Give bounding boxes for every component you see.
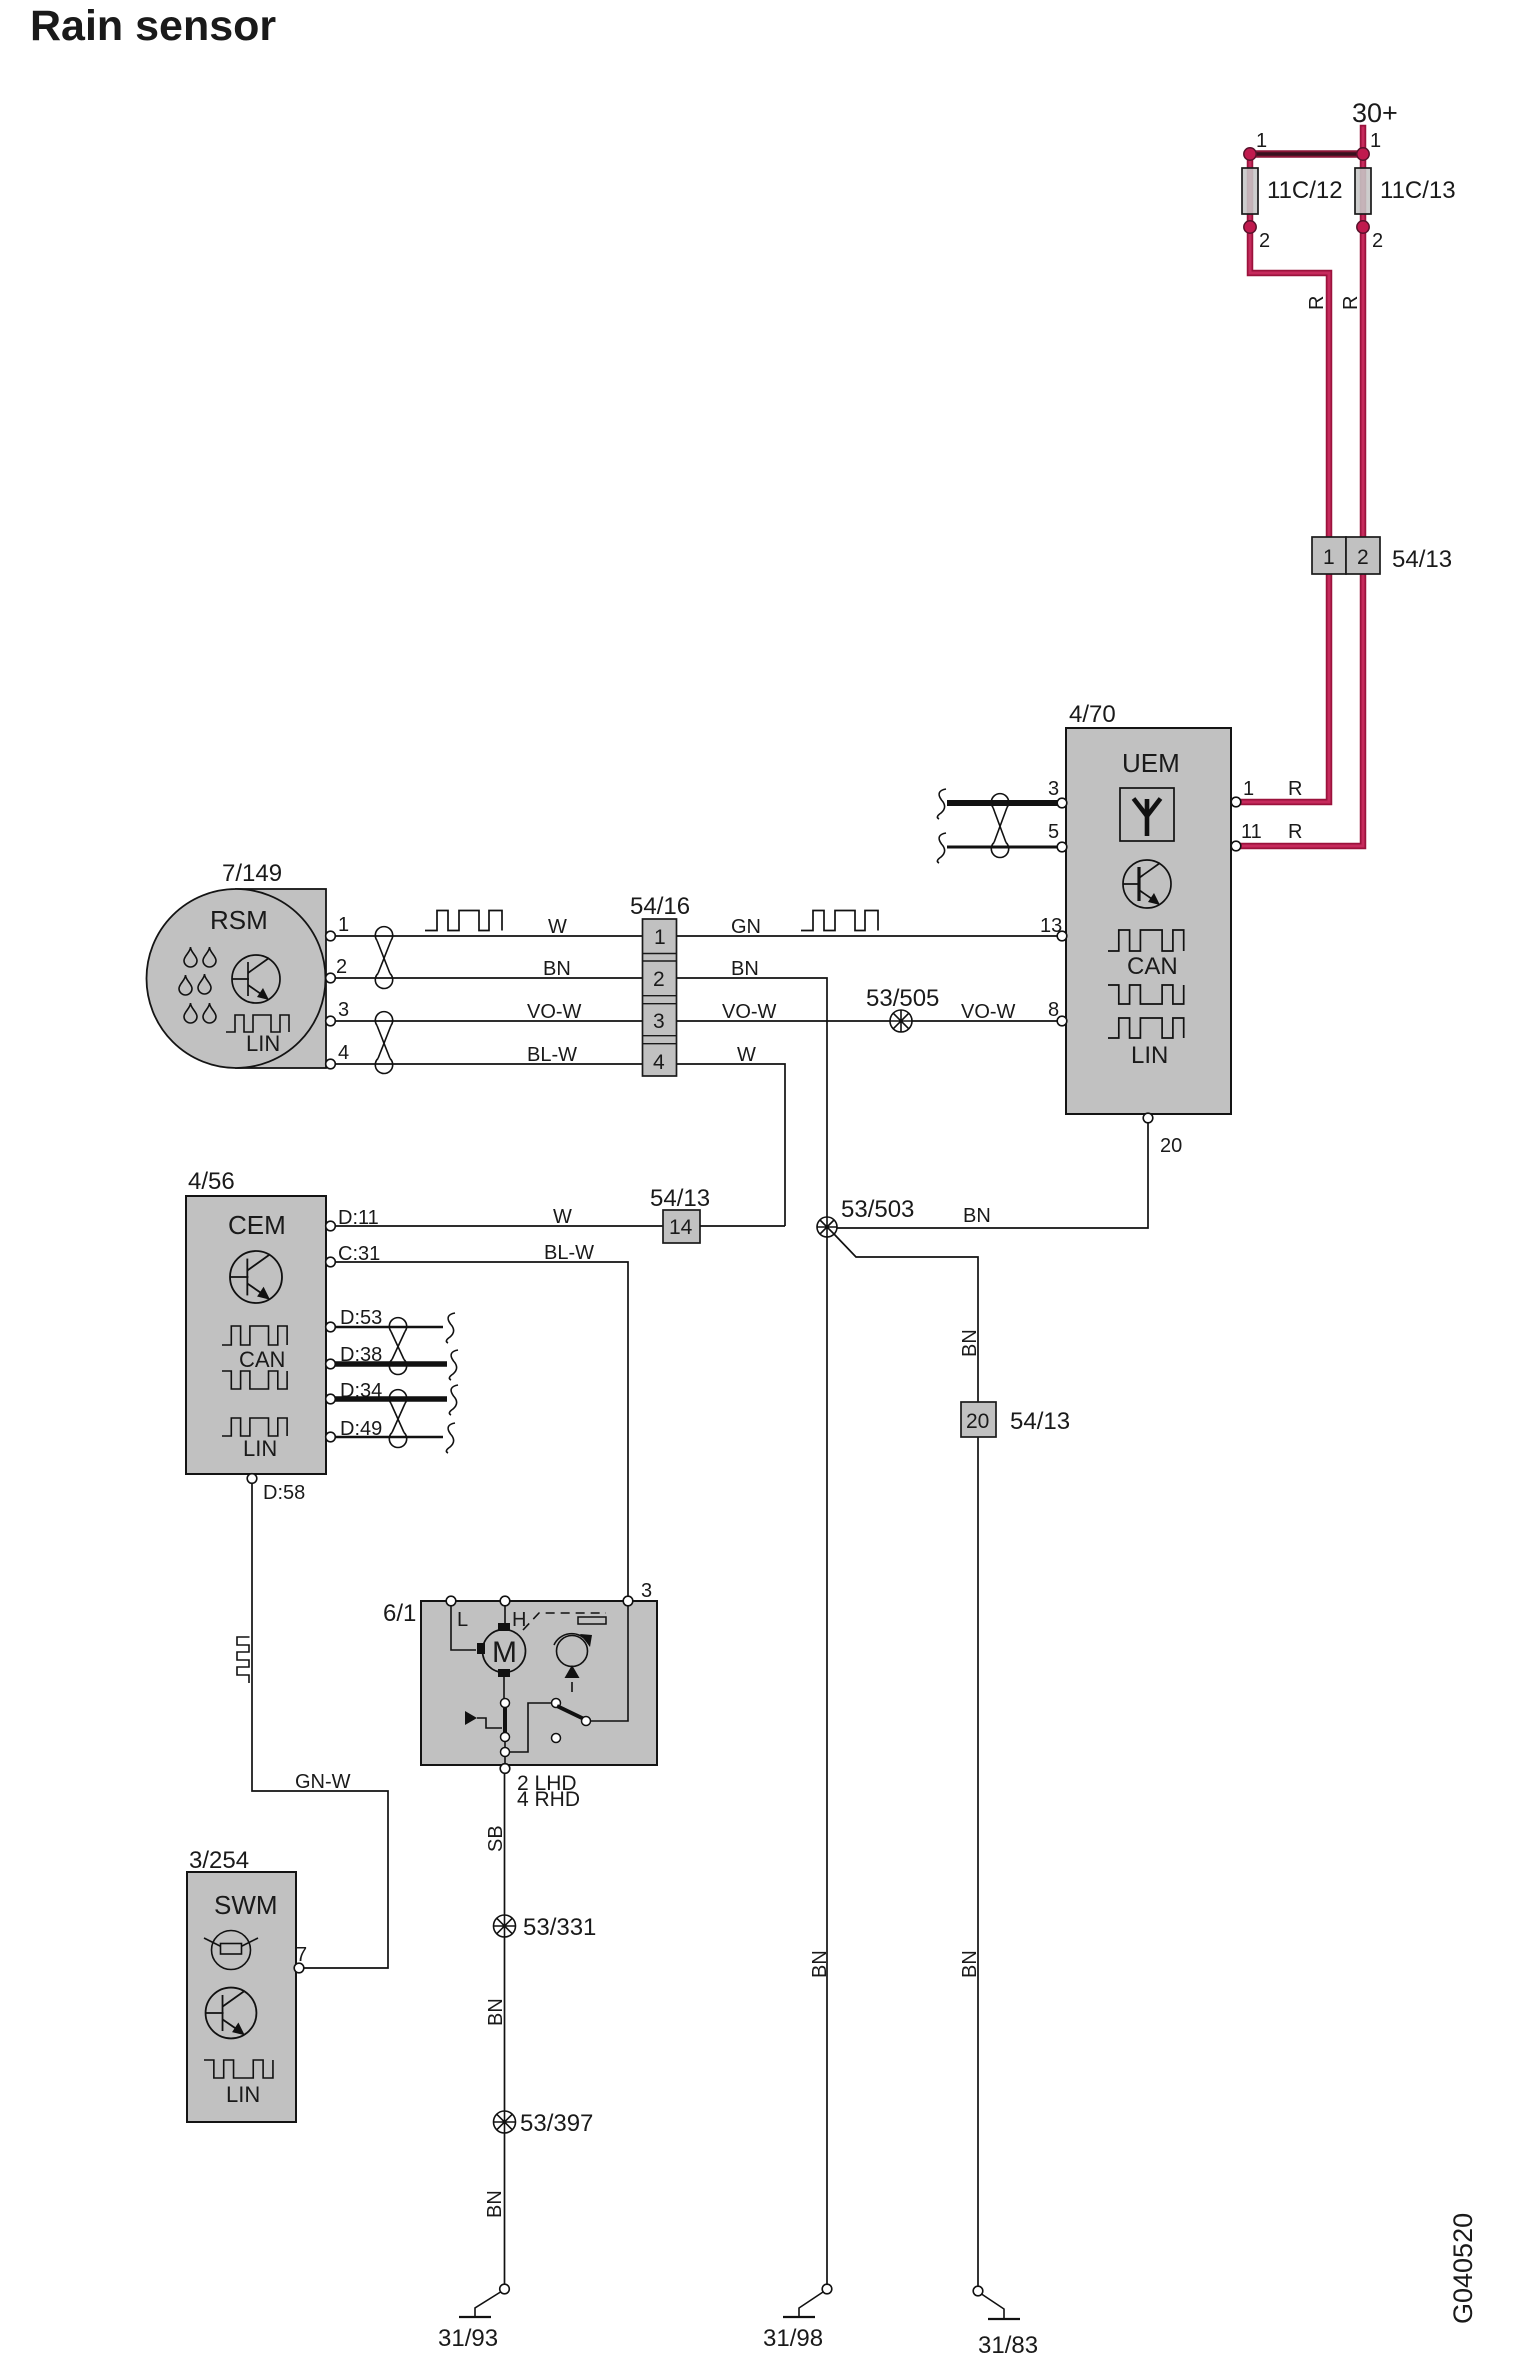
svg-text:5: 5 [1048,821,1059,843]
svg-text:3: 3 [641,1580,652,1602]
svg-text:30+: 30+ [1352,98,1398,128]
svg-text:54/13: 54/13 [1392,546,1452,573]
svg-text:11C/13: 11C/13 [1380,177,1456,204]
CEM pin D:49 [326,1432,336,1442]
svg-text:3: 3 [1048,778,1059,800]
wire 54/13 pin2 to UEM pin11 (red) [1240,574,1363,846]
svg-text:31/83: 31/83 [978,2332,1038,2359]
svg-text:3: 3 [653,1010,665,1033]
svg-text:LIN: LIN [246,1031,280,1056]
ground 31/83 [973,2286,1038,2359]
svg-text:CEM: CEM [228,1210,286,1240]
svg-text:BN: BN [484,2190,506,2218]
svg-text:2: 2 [1372,230,1383,252]
svg-text:11C/12: 11C/12 [1267,177,1343,204]
svg-text:BN: BN [543,958,571,980]
wire 54/16 pin1 to UEM pin13 (GN) [677,935,1057,937]
wire 54/13 pin14 to 54/16 pin4 junction (W) [700,1225,785,1227]
svg-text:BN: BN [731,958,759,980]
antenna icon (UEM) [1120,788,1174,841]
svg-text:2: 2 [336,956,347,978]
svg-text:D:58: D:58 [263,1482,305,1504]
motor M1 (wiper motor) [477,1623,526,1677]
CEM pin D:53 [326,1322,336,1332]
transistor icon (RSM) [232,955,280,1003]
thermal cutout (dashed) [523,1613,606,1630]
cut mark (D:38 end) [449,1350,458,1380]
switch node (mid) [501,1733,510,1742]
RSM pin 1 [326,931,336,941]
splice 53/397 [494,2110,594,2137]
svg-text:M: M [492,1636,517,1669]
contact node (to pin 3) [582,1717,591,1726]
svg-text:W: W [548,916,567,938]
wire 30+ feed (red, vertical to node 1 right) [1360,128,1367,537]
svg-text:53/331: 53/331 [523,1914,596,1941]
wire CEM D:49 (CAN stub) [335,1436,443,1439]
svg-text:31/98: 31/98 [763,2325,823,2352]
svg-text:SB: SB [485,1825,507,1852]
CEM pin C:31 [326,1257,336,1267]
node 1 (left, fuse 11C/12 pin 1) [1244,148,1256,160]
UEM pin 11 (right, to fuse 11C/13) [1231,841,1241,851]
park switch moving contact node [552,1699,561,1708]
svg-text:GN-W: GN-W [295,1771,351,1793]
stalk switch icon (SWM) [204,1931,258,1970]
svg-text:VO-W: VO-W [722,1001,777,1023]
svg-text:L: L [457,1609,468,1631]
splice 53/503 [817,1196,914,1237]
svg-text:LIN: LIN [1131,1042,1168,1069]
LIN pulse icon + label (SWM) [204,2060,273,2078]
node 1 (right, fuse 11C/13 pin 1) [1357,148,1369,160]
connector 54/13 pin 20 [961,1402,1070,1437]
cut mark (pin 3 wire end) [937,789,946,819]
svg-text:4/70: 4/70 [1069,701,1116,728]
park position cam symbol [554,1634,592,1692]
wire L pin to motor [451,1606,476,1650]
UEM pin 3 (left, CAN-H stub) [947,800,1058,806]
svg-text:1: 1 [1243,778,1254,800]
CAN pulse icons + label (CEM) [222,1326,287,1389]
transistor icon (CEM) [230,1251,282,1303]
wire CEM D:38 (CAN stub) [335,1361,447,1367]
svg-text:R: R [1288,821,1302,843]
raindrop icons (RSM) [179,947,216,1023]
steering wheel module 3/254 SWM box [187,1847,296,2122]
CEM pin D:11 [326,1221,336,1231]
wire UEM pin20 to splice 53/503 (BN) [837,1123,1148,1228]
twisted pair symbol (UEM pins 3/5) [991,794,1008,858]
svg-text:BN: BN [485,1998,507,2026]
svg-text:7: 7 [296,1944,307,1966]
svg-text:7/149: 7/149 [222,860,282,887]
wiper motor 6/1 box [383,1600,657,1765]
svg-text:1: 1 [338,914,349,936]
svg-text:6/1: 6/1 [383,1600,416,1627]
splice 53/505 [866,985,939,1032]
wire RSM pin3 to 54/16 pin3 (VO-W) [336,1020,642,1022]
svg-text:11: 11 [1241,821,1262,843]
svg-text:54/13: 54/13 [1010,1408,1070,1435]
wire RSM pin1 to 54/16 pin1 (W) [336,935,642,937]
LIN pulse icon + label (UEM) [1108,1018,1184,1038]
svg-text:2: 2 [653,968,665,991]
wire RSM pin2 to 54/16 pin2 (BN) [336,977,642,979]
svg-text:3: 3 [338,999,349,1021]
UEM pin 8 (left) [1057,1016,1067,1026]
UEM pin 13 (left) [1057,931,1067,941]
svg-text:VO-W: VO-W [527,1001,582,1023]
switch node (motor feed) [501,1699,510,1708]
svg-text:4/56: 4/56 [188,1168,235,1195]
svg-text:53/397: 53/397 [520,2110,593,2137]
cut mark (pin 5 wire end) [937,833,946,863]
svg-text:LIN: LIN [243,1436,277,1461]
wire CEM D:11 to 54/13 pin14 (W) [335,1225,663,1227]
UEM pin 20 (bottom) [1143,1113,1153,1123]
wire RSM pin4 to 54/16 pin4 (BL-W) [336,1063,642,1065]
svg-text:54/16: 54/16 [630,893,690,920]
RSM pin 3 [326,1016,336,1026]
svg-text:UEM: UEM [1122,748,1180,778]
fuse 11C/12 [1242,168,1258,214]
svg-text:BN: BN [963,1205,991,1227]
wire 54/16 pin4 to 54/13 pin14 (W) [677,1064,785,1226]
svg-text:R: R [1288,778,1302,800]
splice 53/331 [494,1914,597,1941]
wire CEM C:31 to wiper motor pin3 (BL-W) [335,1262,628,1597]
svg-text:BL-W: BL-W [527,1044,577,1066]
svg-text:53/505: 53/505 [866,985,939,1012]
CEM pin D:58 (bottom) [247,1474,257,1484]
node 2 (right, fuse 11C/13 pin 2) [1357,221,1369,233]
switch contact bar (thick) [503,1708,507,1733]
wire motor to switch node [503,1677,505,1699]
svg-text:2: 2 [1357,546,1369,569]
central electronic module 4/56 CEM box [186,1168,326,1474]
svg-text:SWM: SWM [214,1890,278,1920]
svg-text:G040520: G040520 [1448,2213,1478,2324]
wire H pin to motor [504,1606,506,1627]
moving contact blade (thick diagonal) [557,1706,584,1719]
wire CEM D:34 (CAN stub) [335,1396,447,1402]
svg-text:4: 4 [338,1042,349,1064]
svg-text:R: R [1340,296,1362,310]
cut mark (D:53 end) [446,1313,455,1343]
cut mark (D:49 end) [446,1423,455,1453]
svg-text:14: 14 [669,1216,693,1239]
svg-text:54/13: 54/13 [650,1185,710,1212]
unused contact node [552,1734,561,1743]
CAN pulse icons + label (UEM) [1108,930,1184,1004]
svg-text:2: 2 [1259,230,1270,252]
svg-text:1: 1 [1370,130,1381,152]
wire CEM D:53 (CAN stub) [335,1326,443,1329]
RSM pin 4 [326,1059,336,1069]
svg-text:CAN: CAN [239,1347,285,1372]
pulse symbol on wire (right of 54/16) [801,911,878,931]
svg-text:13: 13 [1040,915,1062,937]
svg-text:VO-W: VO-W [961,1001,1016,1023]
wire CEM D:58 to SWM pin7 (GN-W) with LIN pulse symbol [252,1483,388,1968]
svg-text:1: 1 [654,926,666,949]
svg-text:1: 1 [1256,130,1267,152]
svg-text:20: 20 [966,1410,989,1433]
wire wiper bottom pin to ground 31/93 (SB/BN) [504,1773,506,2289]
transistor icon (SWM) [206,1988,257,2039]
connector 54/16 [630,893,690,1076]
switch node (lower) [501,1748,510,1757]
svg-text:W: W [553,1206,572,1228]
wire 54/16 pin3 to UEM pin8 (VO-W) [677,1020,1057,1022]
svg-text:BN: BN [809,1950,831,1978]
ground 31/93 [438,2284,509,2352]
node 2 (left, fuse 11C/12 pin 2) [1244,221,1256,233]
svg-text:GN: GN [731,916,761,938]
LIN pulse icon + label (RSM) [226,1015,289,1032]
svg-text:W: W [737,1044,756,1066]
svg-text:RSM: RSM [210,905,268,935]
UEM pin 5 (left, CAN-L stub) [947,846,1058,849]
LIN pulse icon + label (CEM) [222,1418,287,1436]
wire contact node to pin 3 [591,1606,629,1721]
twisted pair symbol (RSM pins 3/4) [375,1012,392,1074]
svg-text:BN: BN [959,1329,981,1357]
svg-text:4: 4 [653,1051,665,1074]
twisted pair symbol (CEM D:34/D:49) [389,1390,406,1448]
svg-text:53/503: 53/503 [841,1196,914,1223]
ground 31/98 [763,2284,832,2352]
twisted pair symbol (RSM pins 1/2) [375,927,392,989]
wiper pin H (top) [500,1596,510,1606]
CEM pin D:34 [326,1394,336,1404]
pulse symbol on wire (left of 54/16) [425,911,502,931]
svg-text:31/93: 31/93 [438,2325,498,2352]
CEM pin D:38 [326,1359,336,1369]
twisted pair symbol (CEM D:53/D:38) [389,1318,406,1375]
svg-text:4 RHD: 4 RHD [517,1788,580,1811]
svg-text:3/254: 3/254 [189,1847,249,1874]
SWM pin 7 [294,1963,304,1973]
wire moving contact to lower node [510,1703,552,1752]
control unit U1 4/70 UEM box [1066,701,1231,1114]
svg-text:1: 1 [1323,546,1335,569]
svg-text:Rain sensor: Rain sensor [30,2,276,50]
wiper pin 2LHD/4RHD (bottom) [500,1764,510,1774]
wiper pin L (top) [446,1596,456,1606]
svg-text:BN: BN [959,1950,981,1978]
connector 54/13 pin 14 [650,1185,710,1243]
wire 54/13 pin1 to UEM pin1 (red) [1240,574,1329,802]
cut mark (D:34 end) [449,1385,458,1415]
transistor icon (UEM) [1123,860,1171,908]
wire fuse 11C/12 branch (red: down, right, down to 54/13 pin1) [1250,154,1329,537]
svg-text:R: R [1306,296,1328,310]
UEM pin 1 (right, to fuse 11C/12) [1231,797,1241,807]
wire bus node1-node1 (dark red horizontal) [1247,150,1366,158]
connector 54/13 pins 1,2 [1312,537,1452,574]
svg-text:20: 20 [1160,1135,1182,1157]
wiper pin 3 (top) [623,1596,633,1606]
RSM pin 2 [326,973,336,983]
fuse 11C/13 [1355,168,1371,214]
svg-text:LIN: LIN [226,2082,260,2107]
svg-text:CAN: CAN [1127,953,1178,980]
park feed arrow + step [465,1711,477,1725]
rain sensor module 7/149 RSM body [147,860,327,1068]
wire splice 53/503 branch to 54/13 pin20 (BN, down to ground 31/83) [834,1234,978,2291]
svg-text:BL-W: BL-W [544,1242,594,1264]
svg-text:8: 8 [1048,999,1059,1021]
wire 54/16 pin2 to splice 53/503 (BN, down to ground 31/98) [677,978,827,2289]
